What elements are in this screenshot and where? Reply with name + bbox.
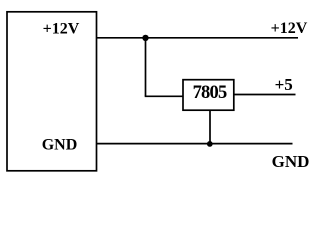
svg-text:+5: +5 <box>275 75 293 94</box>
svg-text:+12V: +12V <box>271 20 308 37</box>
wire regulator ground pin down <box>209 110 211 143</box>
svg-text:GND: GND <box>272 152 310 171</box>
wire +12V rail (top) <box>96 37 298 39</box>
power supply block <box>7 12 97 171</box>
wire regulator output <box>234 94 296 96</box>
wire GND rail (bottom) <box>96 143 292 145</box>
svg-text:+12V: +12V <box>43 21 80 38</box>
svg-text:GND: GND <box>42 137 78 154</box>
svg-text:7805: 7805 <box>193 83 227 103</box>
wire elbow to regulator input <box>145 95 183 97</box>
junction dot on GND rail <box>207 141 213 147</box>
junction dot on +12V rail <box>142 35 148 41</box>
regulator U1 7805 body <box>183 80 234 111</box>
wire junction down to regulator input <box>145 38 147 97</box>
